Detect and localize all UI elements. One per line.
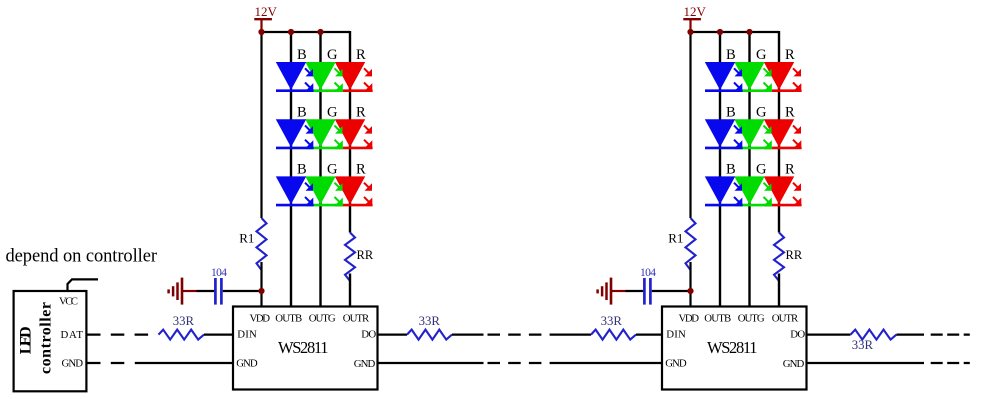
unit 1: G column wire	[319, 32, 321, 307]
junction dot rail/B column (unit 1)	[288, 29, 294, 35]
LED D6 red	[335, 119, 373, 148]
junction dot at 12V on rail (unit 1)	[258, 29, 264, 35]
svg-text:LED: LED	[18, 326, 35, 354]
wire DO dashed tail	[931, 334, 970, 336]
unit 1: wire RR to OUTR pin	[349, 274, 351, 307]
resistor R1 (unit 2)	[668, 218, 695, 270]
wire DAT dashed segment	[87, 334, 148, 336]
wire DIN solid to 2nd 33R	[562, 334, 591, 336]
ground symbol (unit 2)	[598, 278, 626, 305]
wire capacitor to VDD node (unit 2)	[652, 290, 691, 292]
op IC U2 WS2811 box	[662, 307, 807, 390]
wire 33R to U2 DIN	[636, 334, 662, 336]
svg-text:controller: controller	[38, 302, 55, 374]
svg-text:R1: R1	[239, 230, 254, 245]
svg-text:R: R	[785, 104, 795, 120]
svg-text:VCC: VCC	[59, 295, 78, 307]
svg-text:G: G	[327, 162, 338, 178]
svg-text:GND: GND	[354, 358, 376, 370]
wire U2 DO out	[807, 334, 851, 336]
svg-text:DO: DO	[361, 329, 376, 341]
wire U1 DO out	[378, 334, 408, 336]
svg-text:GND: GND	[783, 358, 805, 370]
svg-text:VDD: VDD	[250, 312, 271, 324]
resistor 33R (U2 DIN side)	[591, 314, 636, 340]
svg-text:OUTG: OUTG	[309, 312, 336, 324]
wire 33R to U1 DIN	[204, 334, 233, 336]
unit 2: 12V power rail wire	[691, 31, 780, 33]
wire VCC elbow stub	[68, 279, 99, 291]
capacitor 104 (unit 1)	[211, 267, 227, 304]
svg-text:33R: 33R	[173, 314, 195, 328]
resistor 33R (U2 DO side)	[851, 330, 897, 352]
unit 2: G column wire	[748, 32, 750, 307]
svg-text:B: B	[726, 47, 736, 63]
svg-text:RR: RR	[357, 248, 374, 262]
resistor RR (unit 1)	[345, 233, 374, 281]
svg-text:OUTB: OUTB	[275, 312, 302, 324]
unit 1: wire R1 to VDD pin	[260, 262, 262, 307]
svg-text:G: G	[756, 47, 767, 63]
svg-text:OUTG: OUTG	[738, 312, 765, 324]
svg-text:33R: 33R	[852, 338, 874, 352]
LED D13 blue	[705, 119, 743, 148]
LED D12 red	[764, 62, 802, 91]
wire capacitor to VDD node (unit 1)	[223, 290, 262, 292]
svg-text:RR: RR	[786, 248, 803, 262]
svg-text:33R: 33R	[601, 314, 623, 328]
wire GND dashed segment (controller)	[87, 362, 124, 364]
svg-text:104: 104	[640, 267, 656, 279]
svg-text:R: R	[356, 104, 366, 120]
svg-text:WS2811: WS2811	[278, 338, 329, 357]
LED D11 green	[734, 62, 772, 91]
svg-text:B: B	[297, 47, 307, 63]
svg-text:R: R	[785, 162, 795, 178]
wire GND U1 to dashes	[378, 362, 484, 364]
unit 1: 12V power rail wire	[262, 31, 351, 33]
svg-text:104: 104	[211, 267, 227, 279]
wire GND dashed tail	[931, 362, 970, 364]
svg-text:G: G	[756, 104, 767, 120]
LED D3 red	[335, 62, 373, 91]
LED D9 red	[335, 176, 373, 205]
LED D5 green	[305, 119, 343, 148]
resistor 33R (controller DAT to U1 DIN)	[159, 314, 205, 339]
junction dot at 12V on rail (unit 2)	[687, 29, 693, 35]
capacitor 104 (unit 2)	[640, 267, 656, 304]
LED D18 red	[764, 176, 802, 205]
svg-text:GND: GND	[665, 357, 687, 369]
LED D16 blue	[705, 176, 743, 205]
power symbol 12V (unit 1)	[254, 4, 277, 32]
wire GND solid tail	[807, 362, 925, 364]
unit 1: R column wire	[349, 31, 351, 233]
unit 2: R column wire	[778, 31, 780, 233]
LED D17 green	[734, 176, 772, 205]
wire DO dashed mid segment	[488, 334, 563, 336]
svg-text:B: B	[726, 162, 736, 178]
svg-text:R1: R1	[668, 230, 683, 245]
power symbol 12V (unit 2)	[683, 4, 706, 32]
svg-text:GND: GND	[236, 357, 258, 369]
svg-text:G: G	[756, 162, 767, 178]
junction dot rail/G column (unit 1)	[317, 29, 323, 35]
LED D8 green	[305, 176, 343, 205]
wire ground to capacitor (unit 2)	[626, 290, 644, 292]
svg-text:WS2811: WS2811	[707, 338, 758, 357]
svg-text:B: B	[297, 162, 307, 178]
svg-text:DO: DO	[790, 329, 805, 341]
svg-text:DIN: DIN	[666, 329, 686, 341]
LED controller box	[14, 291, 87, 391]
svg-text:OUTB: OUTB	[704, 312, 731, 324]
LED D4 blue	[276, 119, 314, 148]
wire GND solid to U2	[562, 362, 662, 364]
wire GND dashed mid segment	[488, 362, 563, 364]
resistor R1 (unit 1)	[239, 218, 266, 270]
wire GND solid to U1	[135, 362, 233, 364]
svg-text:B: B	[297, 104, 307, 120]
svg-text:DIN: DIN	[237, 329, 257, 341]
svg-text:DAT: DAT	[61, 329, 84, 341]
LED D14 green	[734, 119, 772, 148]
svg-text:OUTR: OUTR	[772, 312, 799, 324]
LED D1 blue	[276, 62, 314, 91]
unit 1: B column wire	[290, 32, 292, 307]
svg-text:depend on controller: depend on controller	[6, 247, 158, 267]
ground symbol (unit 1)	[169, 278, 197, 305]
LED D2 green	[305, 62, 343, 91]
unit 2: B column wire	[719, 32, 721, 307]
wire DO solid after 33R (right)	[897, 334, 925, 336]
svg-text:OUTR: OUTR	[343, 312, 370, 324]
svg-text:R: R	[356, 47, 366, 63]
svg-text:R: R	[356, 162, 366, 178]
junction dot rail/G column (unit 2)	[746, 29, 752, 35]
svg-text:GND: GND	[62, 357, 84, 369]
junction dot rail/B column (unit 2)	[717, 29, 723, 35]
resistor RR (unit 2)	[774, 233, 803, 281]
op IC U1 WS2811 box	[233, 307, 378, 390]
svg-text:33R: 33R	[419, 314, 441, 328]
unit 2: wire RR to OUTR pin	[778, 274, 780, 307]
svg-text:R: R	[785, 47, 795, 63]
wire ground to capacitor (unit 1)	[197, 290, 215, 292]
svg-text:G: G	[327, 47, 338, 63]
LED D10 blue	[705, 62, 743, 91]
svg-text:12V: 12V	[684, 4, 707, 19]
unit 2: wire R1 to VDD pin	[689, 262, 691, 307]
svg-text:G: G	[327, 104, 338, 120]
unit 2: VDD vertical wire (12V to R1)	[689, 32, 691, 218]
svg-text:12V: 12V	[255, 4, 278, 19]
wire DO solid after 33R	[452, 334, 484, 336]
unit 1: VDD vertical wire (12V to R1)	[260, 32, 262, 218]
svg-text:VDD: VDD	[679, 312, 700, 324]
junction dot VDD/cap node (unit 1)	[258, 288, 264, 294]
svg-text:B: B	[726, 104, 736, 120]
resistor 33R (U1 DO side)	[407, 314, 452, 340]
LED D7 blue	[276, 176, 314, 205]
junction dot VDD/cap node (unit 2)	[687, 288, 693, 294]
LED D15 red	[764, 119, 802, 148]
